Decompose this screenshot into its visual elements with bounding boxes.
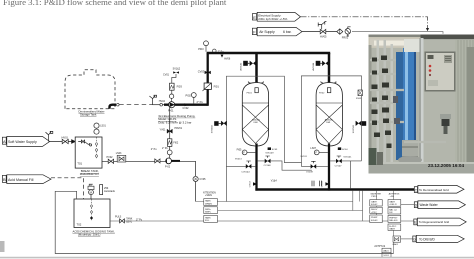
svg-text:SC04: SC04: [342, 149, 348, 151]
svg-text:SV10&9: SV10&9: [265, 153, 274, 155]
outlet V1 thick drop: [255, 144, 257, 191]
svg-text:Storage Tank: Storage Tank: [80, 113, 97, 117]
svg-text:Waste Water: Waste Water: [420, 203, 439, 207]
svg-text:E: E: [253, 15, 256, 20]
node vertical x352.8: [352, 191, 354, 211]
header thick feed line: [207, 52, 331, 55]
node vertical x359: [358, 191, 360, 202]
break tank T01: [75, 137, 102, 168]
boxed label tank fill: [204, 215, 218, 222]
sample cock SC03 col1: [268, 147, 271, 150]
autofill rotameter: [100, 185, 103, 195]
svg-text:DN: DN: [389, 212, 393, 214]
svg-text:2" Pu: 2" Pu: [151, 148, 157, 151]
valve HV07 on acid line: [120, 219, 125, 223]
svg-text:GATE: GATE: [371, 200, 377, 203]
svg-text:LS07: LS07: [310, 147, 316, 150]
floor in photo: [369, 162, 474, 174]
wire bottom return loop: [55, 191, 393, 253]
gauge PI03 at top: [204, 41, 209, 46]
node vertical chain1: [375, 191, 377, 215]
boxed label AA01: [382, 248, 391, 253]
svg-text:CV05: CV05: [200, 178, 207, 181]
svg-text:PI02: PI02: [186, 93, 192, 97]
wire acid outlet line long to flag E2: [110, 220, 414, 222]
svg-text:6 bar.: 6 bar.: [283, 30, 292, 34]
flag E electrical supply: [252, 12, 300, 21]
svg-text:LEVL: LEVL: [126, 220, 133, 223]
svg-text:PULS: PULS: [115, 215, 122, 218]
svg-text:DRAIN: DRAIN: [205, 202, 212, 205]
product header thick to flag C: [255, 188, 414, 190]
node vertical x362.6: [362, 191, 364, 221]
valve HV05 on air line: [320, 29, 326, 33]
dome nozzle ticks V1: [248, 81, 264, 83]
boxed label drain sample: [204, 207, 218, 214]
svg-text:+DELIV: +DELIV: [389, 204, 397, 206]
wire dashed suction line: [119, 104, 152, 106]
svg-text:FI05: FI05: [237, 148, 242, 151]
svg-text:To Regenerant/acid Grid: To Regenerant/acid Grid: [419, 220, 450, 224]
svg-text:Figure 3.1: P&ID flow scheme a: Figure 3.1: P&ID flow scheme and view of…: [3, 0, 227, 7]
wire dashed acid fill line: [51, 178, 84, 199]
svg-text:CV02: CV02: [183, 107, 190, 110]
valve SV10 black: [265, 159, 271, 164]
svg-text:401&2: 401&2: [371, 204, 378, 206]
svg-text:ATTENTION: ATTENTION: [203, 192, 216, 195]
check valve CV05 circle: [193, 176, 198, 181]
flag G to DIB B/D: [413, 235, 464, 242]
wire regen line y210.5: [218, 210, 363, 212]
valve AV03 with actuator: [316, 61, 321, 66]
gauge FI05 col1: [242, 150, 247, 155]
svg-text:B+PFC: B+PFC: [389, 226, 397, 228]
flag F air supply: [252, 27, 302, 35]
svg-text:CV01&4: CV01&4: [241, 172, 250, 174]
elbow suction fitting: [110, 105, 117, 109]
svg-text:FX01: FX01: [247, 92, 253, 94]
valve HV11 on right frame of box2: [362, 121, 366, 126]
svg-text:FI01: FI01: [214, 85, 220, 89]
svg-text:FI03: FI03: [177, 85, 183, 89]
injection line down from pump suction: [169, 107, 171, 158]
valve HV10 on left frame: [214, 121, 218, 126]
svg-text:SV07&8: SV07&8: [353, 124, 355, 133]
svg-text:TANK: TANK: [205, 200, 211, 203]
svg-text:HV02: HV02: [107, 156, 114, 159]
flag B acid manual fill: [2, 175, 51, 184]
drain arrow col1: [253, 182, 257, 186]
gray page band bottom: [0, 257, 474, 259]
svg-text:G: G: [413, 238, 416, 242]
svg-text:401&3: 401&3: [371, 220, 378, 222]
svg-text:SV013: SV013: [235, 159, 242, 161]
svg-text:AV03&4: AV03&4: [312, 62, 315, 71]
wire soft water line to break tank: [50, 141, 75, 143]
wire air supply line: [302, 31, 337, 33]
svg-text:LS01: LS01: [100, 125, 106, 128]
wire dosing line turns down at right: [195, 161, 197, 201]
outlet V2 thick drop: [328, 144, 330, 191]
svg-text:A: A: [3, 139, 6, 144]
svg-text:Soft Water Supply: Soft Water Supply: [8, 140, 37, 144]
svg-text:SV05&6: SV05&6: [212, 124, 214, 133]
svg-text:HV06: HV06: [224, 58, 231, 61]
flag C to demineralised grid: [414, 185, 464, 193]
sight glass port V2: [327, 88, 330, 93]
svg-text:GATE: GATE: [389, 228, 395, 231]
svg-text:FX02: FX02: [319, 92, 325, 94]
branch left col1: [226, 165, 255, 167]
level probe dashed in acid tank: [91, 199, 93, 221]
svg-text:CV01: CV01: [163, 74, 170, 77]
svg-text:LS03: LS03: [116, 152, 122, 155]
valve HV01: [62, 139, 68, 143]
svg-text:T02: T02: [77, 223, 82, 227]
svg-text:DMI: DMI: [326, 122, 330, 124]
gauge LI01 above tank: [94, 129, 99, 134]
float valve inside break tank: [78, 140, 92, 146]
svg-text:Acid Manual Fill: Acid Manual Fill: [8, 178, 34, 182]
svg-text:Duty: 6.2 l/hr/hr @ 3.2 bar: Duty: 6.2 l/hr/hr @ 3.2 bar: [158, 121, 191, 125]
svg-text:CV049: CV049: [306, 172, 313, 174]
storage tank (dashed, future): [65, 70, 115, 109]
valve CV049 col2 left: [301, 163, 328, 167]
svg-text:PI03: PI03: [198, 47, 204, 51]
wire to flag D: [401, 204, 415, 206]
svg-text:Air Supply: Air Supply: [259, 30, 275, 34]
boxed valve LS03: [117, 155, 126, 162]
svg-text:FR01: FR01: [342, 36, 349, 40]
svg-text:2" Pu: 2" Pu: [162, 147, 168, 150]
svg-text:V1&4: V1&4: [271, 179, 278, 182]
wire electrical dash-dot line to cabinet: [301, 17, 428, 29]
flange brackets col2 drain: [312, 181, 321, 187]
vent gauge on header corner: [213, 49, 217, 53]
svg-text:DRN+: DRN+: [205, 209, 212, 211]
svg-text:AS4000: AS4000: [252, 119, 261, 122]
svg-text:HV04: HV04: [159, 100, 166, 103]
svg-text:T01: T01: [77, 162, 82, 166]
arrow electrical drop: [426, 28, 429, 31]
branch right col2: [330, 161, 361, 189]
sight glass port V1: [255, 88, 258, 93]
svg-text:B: B: [3, 177, 6, 182]
svg-text:AV/PRESS: AV/PRESS: [389, 192, 400, 195]
svg-text:PRV1: PRV1: [371, 196, 377, 198]
dome nozzle ticks V2: [321, 81, 337, 83]
check valve CV03: [205, 71, 211, 74]
svg-text:To DIB B/D: To DIB B/D: [419, 237, 435, 241]
svg-text:TANK: TANK: [205, 216, 211, 219]
svg-text:Auto/tank: Auto/tank: [104, 189, 116, 193]
svg-text:To Demineralised Grid: To Demineralised Grid: [419, 188, 449, 192]
svg-text:AV01&2: AV01&2: [240, 62, 243, 71]
relief valve SV1&2 above damper: [172, 74, 176, 83]
check valve CV02 tick: [185, 103, 188, 106]
gauge PI01 above pump: [169, 94, 173, 98]
svg-text:23.12.2005 16:04: 23.12.2005 16:04: [428, 163, 464, 168]
boxed valve GA01 before flag G: [393, 236, 401, 242]
rotameter FI02: [168, 139, 172, 147]
svg-text:FILL: FILL: [205, 220, 210, 222]
riser thick discharge to header: [207, 53, 209, 106]
svg-text:SC03: SC03: [272, 149, 278, 151]
branch 2 thick drop: [328, 53, 331, 88]
flag A soft water supply: [2, 137, 49, 147]
svg-text:FI02: FI02: [173, 141, 178, 144]
wire break tank outlet to dosing line: [102, 160, 196, 162]
svg-text:PAL-401: PAL-401: [389, 219, 398, 222]
regulator vent above air line: [318, 22, 326, 30]
svg-text:GATE: GATE: [389, 200, 395, 203]
level probes in break tank: [96, 137, 98, 159]
sample cock SC04 col2: [338, 147, 341, 150]
svg-text:HV05: HV05: [320, 35, 327, 39]
branch right col1: [258, 161, 312, 170]
node vertical chain2 to bottom loop: [393, 191, 395, 254]
svg-text:CV1&8: CV1&8: [264, 165, 272, 167]
svg-text:2" Pu: 2" Pu: [197, 100, 204, 104]
svg-text:CV016: CV016: [322, 180, 324, 187]
svg-text:(Model/qty: 25lt/1): (Model/qty: 25lt/1): [78, 233, 100, 237]
valve CV1-7 black: [336, 159, 342, 164]
dosing pump P-02: [171, 160, 180, 162]
svg-text:AA01: AA01: [383, 250, 389, 253]
gauge LS07 col2: [314, 150, 319, 155]
wire to flag G: [401, 238, 413, 240]
valve AV01 with actuator: [243, 61, 248, 66]
svg-text:24/TPT-02: 24/TPT-02: [374, 246, 385, 248]
svg-text:DMI: DMI: [254, 122, 258, 124]
svg-text:SV01&1: SV01&1: [343, 157, 352, 159]
svg-text:PRV01: PRV01: [175, 127, 183, 130]
branch 1 thick drop: [255, 53, 258, 88]
svg-text:AS4000: AS4000: [325, 119, 334, 122]
boxed label tank drain: [204, 199, 218, 206]
gray drum at column base: [398, 156, 422, 164]
gauge PI02 on discharge: [191, 93, 196, 98]
flag D waste water: [414, 201, 465, 209]
svg-text:230v 1ph 60Hz +/-5%: 230v 1ph 60Hz +/-5%: [258, 17, 287, 21]
svg-text:CV03: CV03: [198, 70, 205, 74]
svg-text:P-02: P-02: [165, 166, 171, 169]
vent above soft water line: [46, 131, 53, 141]
wire suction line solid: [153, 104, 164, 106]
filter-regulator FR01: [345, 27, 351, 36]
valve SV01 black: [167, 129, 172, 133]
pump P-01 with thick discharge: [164, 104, 208, 106]
electrical cabinet in photo: [425, 52, 456, 92]
wire waste line y201: [196, 201, 353, 203]
svg-text:DELIV: DELIV: [371, 209, 378, 211]
svg-text:17 Pu: 17 Pu: [136, 218, 143, 221]
acid tank T02: [74, 199, 110, 228]
box 1 piping frame: [226, 76, 361, 202]
valve CV014 black: [246, 164, 252, 169]
check valve CV06: [72, 140, 76, 144]
sight glass on right frame: [358, 90, 362, 96]
agitator M above acid tank: [90, 195, 92, 199]
valve CV01 small: [160, 103, 163, 106]
svg-text:PUMP: PUMP: [371, 217, 378, 219]
svg-text:YV01: YV01: [160, 129, 167, 132]
flag E2 to regenerant grid: [414, 218, 466, 226]
valve HV02: [108, 159, 113, 163]
svg-text:Model/Bulk 50 l: Model/Bulk 50 l: [80, 172, 100, 176]
svg-text:P-01: P-01: [168, 109, 174, 113]
bucket bottom left in photo: [369, 148, 377, 165]
gauge LS01 above tank: [94, 123, 99, 128]
svg-text:GATE TEE: GATE TEE: [370, 192, 381, 195]
photo inset of pilot plant: [369, 35, 474, 174]
drain tick on header: [221, 55, 224, 58]
vent above suction: [149, 95, 156, 105]
vessel V2 anion column: [316, 83, 342, 147]
svg-text:HV01: HV01: [62, 135, 69, 139]
valve cluster blobs in photo: [372, 56, 392, 149]
svg-text:FX03: FX03: [356, 98, 362, 100]
svg-text:PMP/GT: PMP/GT: [389, 217, 398, 219]
svg-text:SMPL: SMPL: [205, 212, 212, 214]
valve HV03: [155, 159, 160, 163]
svg-text:SV011: SV011: [300, 156, 307, 158]
svg-text:CV013: CV013: [249, 180, 251, 187]
gauge QI01: [167, 150, 172, 155]
pulsation damper PD01: [170, 83, 175, 90]
blue ion exchange columns in photo: [396, 52, 404, 160]
svg-text:+SIGN: +SIGN: [205, 195, 212, 197]
svg-text:GA01: GA01: [392, 243, 398, 246]
gray mark left edge: [0, 241, 5, 252]
silver pipes in photo: [420, 38, 424, 170]
svg-text:SV1&2: SV1&2: [173, 68, 181, 71]
air regulator unit in photo: [442, 119, 450, 126]
vessel V1 cation column: [242, 83, 268, 147]
filter diamond on air line: [337, 29, 343, 34]
svg-text:CV1&7: CV1&7: [335, 165, 343, 167]
flow indicator FI01 square: [204, 83, 211, 89]
svg-text:BAL val: BAL val: [389, 208, 397, 211]
boxed label SC01: [382, 253, 391, 257]
